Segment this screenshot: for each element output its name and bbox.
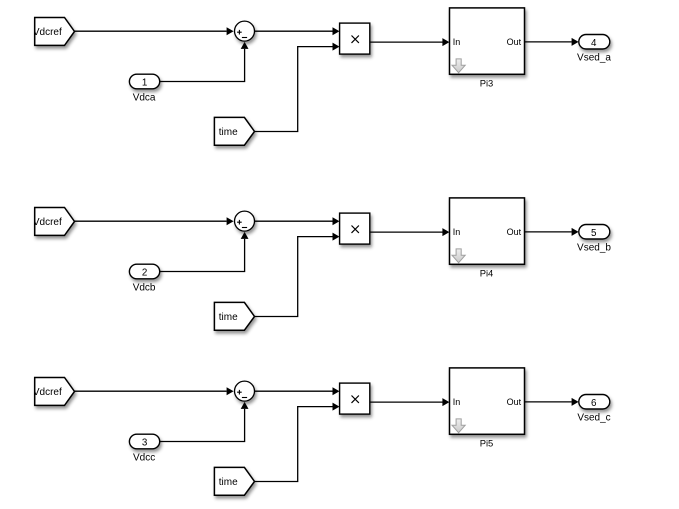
svg-text:4: 4: [591, 38, 597, 49]
label Pi3: [480, 78, 494, 89]
inport 3 (row 3): [129, 434, 159, 449]
svg-text:Vdcb: Vdcb: [133, 283, 156, 294]
sum block (row 3): [235, 381, 255, 401]
wire Vdcref to sum (row 2): [75, 217, 234, 225]
outport 6 (row 3): [579, 395, 610, 410]
wire Pi4 Out to outport 5 (row 2): [525, 228, 579, 236]
svg-text:Vdcref: Vdcref: [33, 217, 62, 228]
link-badge down arrow of Pi3: [452, 59, 465, 73]
wire sum to product input 1 (row 2): [255, 217, 340, 225]
link-badge down arrow of Pi5: [452, 419, 465, 433]
from tag time (row 1): [214, 117, 254, 145]
outport 4 (row 1): [579, 35, 610, 50]
wire Vdcb to sum minus input (row 2): [160, 232, 249, 272]
from tag Vdcref (row 3): [33, 378, 75, 406]
svg-text:Pi3: Pi3: [480, 78, 494, 89]
svg-text:Out: Out: [507, 227, 522, 237]
svg-text:Vdcc: Vdcc: [133, 453, 155, 464]
label Vsed_c (row 3): [577, 413, 610, 424]
label Pi5: [480, 438, 494, 449]
svg-text:Vsed_a: Vsed_a: [577, 53, 611, 64]
wire product to Pi3 In (row 1): [370, 38, 450, 46]
wire Pi5 Out to outport 6 (row 3): [525, 398, 579, 406]
svg-text:6: 6: [591, 398, 597, 409]
wire Vdca to sum minus input (row 1): [160, 42, 249, 82]
svg-text:Vdca: Vdca: [133, 93, 156, 104]
svg-text:In: In: [453, 37, 461, 47]
wire Vdcref to sum (row 1): [75, 27, 234, 35]
svg-text:3: 3: [142, 438, 148, 449]
svg-text:In: In: [453, 227, 461, 237]
svg-text:Out: Out: [507, 37, 522, 47]
inport 1 (row 1): [129, 74, 159, 89]
wire sum to product input 1 (row 1): [255, 27, 340, 35]
from tag time (row 3): [214, 467, 254, 495]
svg-text:1: 1: [142, 78, 147, 89]
label Vsed_a (row 1): [577, 53, 611, 64]
sum block (row 2): [235, 211, 255, 231]
svg-text:Vsed_c: Vsed_c: [577, 413, 610, 424]
outport 5 (row 2): [579, 225, 610, 240]
from tag Vdcref (row 1): [33, 18, 75, 46]
wire Vdcref to sum (row 3): [75, 387, 234, 395]
from tag time (row 2): [214, 302, 254, 330]
svg-text:5: 5: [591, 228, 597, 239]
sum block (row 1): [235, 21, 255, 41]
svg-text:Vsed_b: Vsed_b: [577, 243, 611, 254]
wire product to Pi4 In (row 2): [370, 228, 450, 236]
wire time to product input 2 (row 1): [255, 43, 340, 132]
subsystem Pi4 (row 2): [450, 198, 525, 264]
wire time to product input 2 (row 2): [255, 233, 340, 317]
svg-text:Out: Out: [507, 397, 522, 407]
product block (row 2): [340, 213, 370, 244]
label Vdcc (row 3): [133, 453, 155, 464]
svg-text:time: time: [219, 477, 238, 488]
subsystem Pi3 (row 1): [450, 8, 525, 74]
svg-text:Pi4: Pi4: [480, 268, 494, 279]
svg-text:time: time: [219, 312, 238, 323]
svg-text:Vdcref: Vdcref: [33, 27, 62, 38]
label Vsed_b (row 2): [577, 243, 611, 254]
wire sum to product input 1 (row 3): [255, 387, 340, 395]
svg-text:Pi5: Pi5: [480, 438, 494, 449]
svg-text:In: In: [453, 397, 461, 407]
subsystem Pi5 (row 3): [450, 368, 525, 434]
product block (row 3): [340, 383, 370, 414]
product block (row 1): [340, 23, 370, 54]
label Vdca (row 1): [133, 93, 156, 104]
inport 2 (row 2): [129, 264, 159, 279]
from tag Vdcref (row 2): [33, 208, 75, 236]
label Pi4: [480, 268, 494, 279]
wire Vdcc to sum minus input (row 3): [160, 402, 249, 442]
wire product to Pi5 In (row 3): [370, 398, 450, 406]
label Vdcb (row 2): [133, 283, 156, 294]
svg-text:time: time: [219, 127, 238, 138]
wire Pi3 Out to outport 4 (row 1): [525, 38, 579, 46]
link-badge down arrow of Pi4: [452, 249, 465, 263]
svg-text:Vdcref: Vdcref: [33, 387, 62, 398]
svg-text:2: 2: [142, 268, 147, 279]
wire time to product input 2 (row 3): [255, 403, 340, 482]
